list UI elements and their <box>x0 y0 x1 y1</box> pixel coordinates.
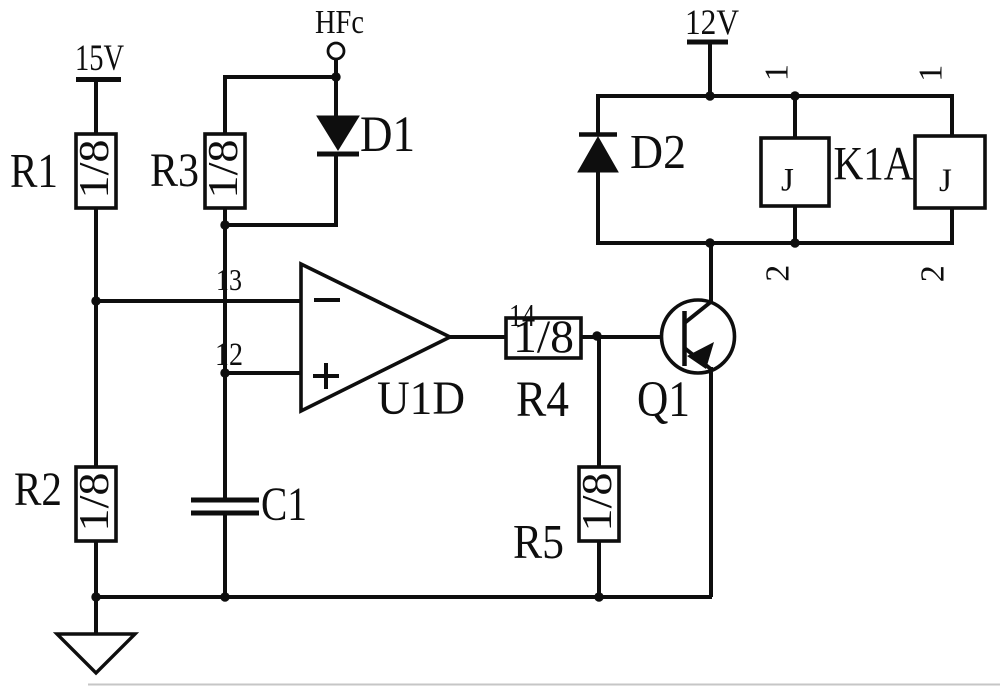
junction dot rail left <box>91 592 100 601</box>
svg-text:J: J <box>939 163 952 199</box>
svg-text:14: 14 <box>509 297 535 333</box>
junction dot R5 bottom <box>594 592 603 601</box>
relay coil K1A box 1 <box>761 138 829 206</box>
terminal HFc circle <box>328 43 344 59</box>
wire D2 to bottom rail <box>596 172 600 245</box>
wire HFc node to D1 <box>334 77 338 118</box>
wire 15V to R1 <box>94 80 98 136</box>
node HFc junction <box>331 72 340 81</box>
wire R2 to ground rail <box>94 541 98 597</box>
svg-text:K1A: K1A <box>834 138 914 191</box>
node R3/D1 junction <box>220 220 229 229</box>
svg-text:1: 1 <box>913 65 950 82</box>
wire node to op-amp pin 13 <box>96 299 303 303</box>
svg-text:1/8: 1/8 <box>72 140 118 199</box>
svg-text:1/8: 1/8 <box>575 473 621 532</box>
resistor R5 <box>575 467 621 541</box>
wire Q1 collector up <box>709 244 713 304</box>
svg-text:R2: R2 <box>14 463 62 516</box>
svg-text:R3: R3 <box>150 144 199 197</box>
resistor R2 <box>72 467 118 541</box>
ground rail wire <box>96 595 712 599</box>
wire C1 to ground rail <box>223 514 227 597</box>
svg-text:12V: 12V <box>685 2 739 42</box>
power 15V bar <box>76 77 121 82</box>
wire node down to R5 <box>597 337 601 469</box>
svg-text:HFc: HFc <box>315 4 364 41</box>
relay top rail wire <box>598 96 952 138</box>
svg-text:2: 2 <box>760 265 797 282</box>
junction dot C1 bottom <box>220 592 229 601</box>
power 12V bar <box>687 40 728 45</box>
wire node down to pin 12 and C1 <box>223 225 227 500</box>
svg-text:12: 12 <box>215 337 243 373</box>
wire node to op-amp pin 12 <box>225 371 303 375</box>
svg-text:R5: R5 <box>513 514 564 569</box>
diode D1 <box>317 116 359 154</box>
svg-text:2: 2 <box>915 265 952 282</box>
wire D1 to bottom corner <box>225 156 336 225</box>
svg-text:13: 13 <box>216 262 242 297</box>
wire HFc circle to node <box>334 60 338 77</box>
wire R1 to R2 <box>94 208 98 469</box>
wire rail to ground symbol <box>94 597 98 634</box>
wire R5 to ground rail <box>597 541 601 597</box>
svg-text:R1: R1 <box>10 143 58 198</box>
wire R4 to Q1 base <box>581 335 684 339</box>
resistor R1 <box>72 134 118 208</box>
svg-text:J: J <box>781 163 794 199</box>
resistor R4 <box>506 311 581 363</box>
wire Q1 emitter down <box>709 367 713 597</box>
svg-text:D1: D1 <box>360 107 415 163</box>
wire 12V to rail <box>708 42 712 96</box>
node R4/R5 junction <box>592 331 601 340</box>
svg-text:C1: C1 <box>261 478 307 531</box>
diode D2 <box>578 135 618 173</box>
junction dot coil1 bottom <box>790 238 799 247</box>
transistor Q1 <box>662 300 735 373</box>
svg-text:1/8: 1/8 <box>201 140 247 199</box>
wire HFc node to R3 top <box>225 77 336 136</box>
node pin12 junction <box>220 368 229 377</box>
ground <box>57 634 135 673</box>
svg-text:1/8: 1/8 <box>72 473 118 532</box>
junction node R1/R2/pin13 <box>91 296 100 305</box>
svg-text:R4: R4 <box>516 372 569 428</box>
svg-text:15V: 15V <box>75 38 124 79</box>
junction dot 12V on rail <box>705 91 714 100</box>
relay coil K1A box 2 <box>915 136 985 208</box>
wire coil1 to bottom rail <box>793 206 797 243</box>
wire rail to coil1 <box>793 96 797 140</box>
svg-text:1: 1 <box>759 64 796 81</box>
page scan line bottom <box>88 684 1000 686</box>
svg-text:Q1: Q1 <box>637 372 690 428</box>
relay bottom rail wire <box>598 206 952 243</box>
wire op-amp output to R4 <box>448 335 508 339</box>
junction dot coil1 top <box>790 91 799 100</box>
op-amp U1D <box>301 264 450 411</box>
capacitor C1 <box>191 500 259 513</box>
svg-text:D2: D2 <box>630 124 686 179</box>
wire R3 bottom to node <box>223 208 227 227</box>
svg-text:U1D: U1D <box>377 372 465 425</box>
junction dot collector on rail <box>705 238 714 247</box>
resistor R3 <box>201 134 247 208</box>
